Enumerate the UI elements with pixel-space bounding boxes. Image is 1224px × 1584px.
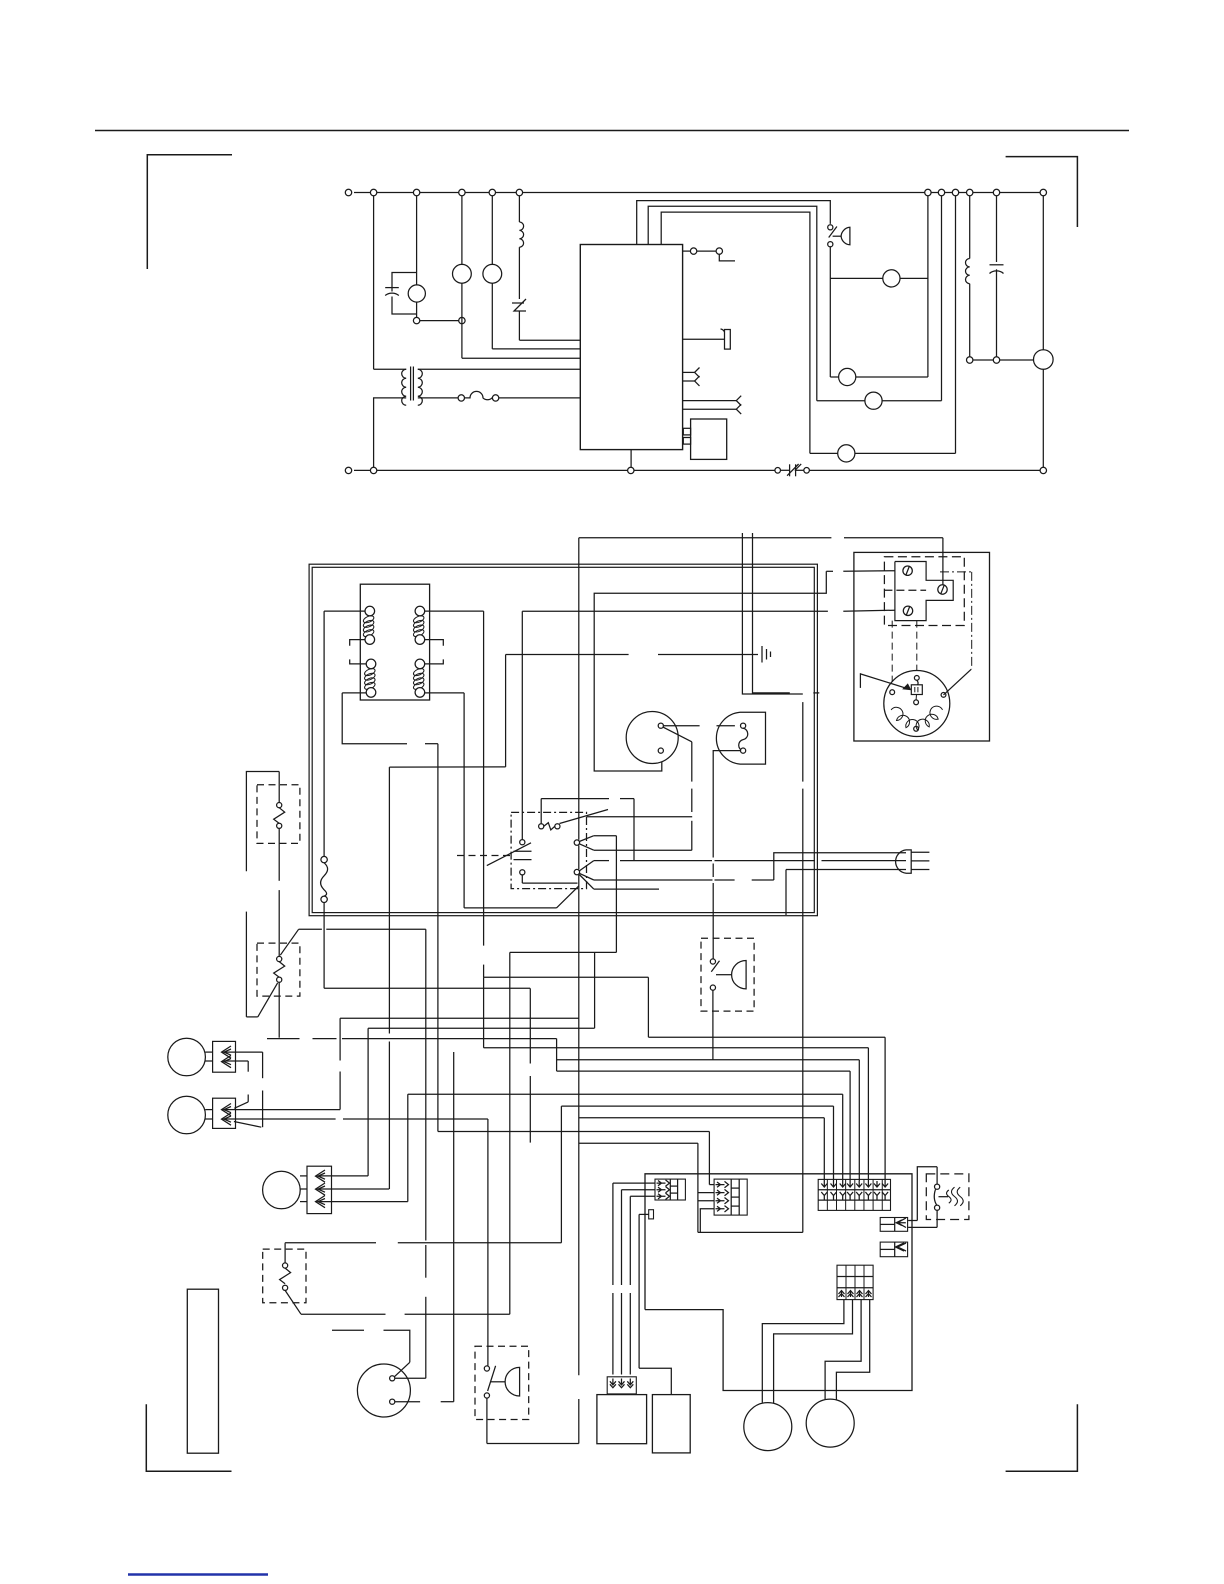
diagonal feed to TC2: [280, 929, 298, 955]
heater M4 circle: [838, 445, 855, 462]
terminal left end of bottom bus: [345, 467, 351, 473]
wire B row1 stub: [709, 1184, 714, 1186]
transformer T1 secondary winding: [418, 369, 423, 405]
switch S7 linkage diagonal: [487, 843, 531, 866]
wire A from line cord area: [753, 533, 790, 693]
bottom bus wire L2: [354, 469, 1043, 471]
wire y1232.4 to x802.8: [698, 1231, 803, 1233]
oven lamp H1 branch: [461, 196, 463, 265]
connector tab J2a: [683, 371, 695, 373]
wire y1131.5 to PCB B row1: [438, 1131, 710, 1133]
wire x487.9 down to S4: [487, 1119, 489, 1366]
wire y1047.8 to conn pin6: [484, 1047, 869, 1049]
wire S7 to main vertical: [522, 882, 577, 884]
connector tab J3b: [683, 408, 737, 410]
wire H1 y1242.7: [284, 1242, 286, 1245]
heater switch S5: [936, 1167, 938, 1184]
wire motor loop bottom y377: [830, 376, 838, 378]
wire bus drop x927.9: [927, 196, 929, 377]
wire lamp H2 to control unit: [492, 348, 580, 350]
wire CU1 relay out 3: [661, 212, 810, 453]
wire J5 branch loop: [633, 799, 635, 861]
turntable motor M7: [168, 1096, 206, 1134]
wire J5 fan diagonals: [579, 861, 594, 871]
dashed linkage stub: [457, 855, 510, 857]
wire timer a to bell: [663, 725, 699, 727]
wire x530.3 down: [529, 988, 531, 1063]
FM1 terminal right: [941, 693, 946, 698]
wire branch y1018.2 left: [340, 1017, 579, 1019]
wire x453.7 up: [453, 1052, 455, 1402]
wire y1028.2: [368, 1027, 594, 1029]
FM1 terminal center: [914, 700, 919, 705]
wire x483.6 drop from RY1b wire: [483, 611, 485, 946]
CN1 wire lower: [224, 1060, 248, 1062]
timer motor TM1 circle: [626, 712, 678, 764]
wire x483.6 down to pin6 row: [483, 977, 485, 1048]
wire ground branch down: [742, 654, 802, 694]
wire TM2a right to x425.8: [395, 1377, 426, 1379]
connector B arrows: [716, 1181, 729, 1187]
cord wire 3: [786, 869, 906, 871]
node top bus x519.4: [516, 189, 522, 195]
wire x594.6 up: [594, 952, 596, 1028]
wire x324.1 down to flex joint: [323, 611, 325, 856]
FM1 terminal top: [914, 676, 919, 681]
node top bus right end x1043.3: [1040, 189, 1046, 195]
fan motor M8: [263, 1171, 301, 1209]
CN2 wire upper to x339.2: [224, 1109, 236, 1111]
wire y816.8: [587, 816, 693, 818]
timer switch blade: [663, 727, 692, 742]
stirrer motor M6: [168, 1038, 206, 1076]
node top bus x927.9: [925, 189, 931, 195]
wire primary feed horizontal y369.3: [374, 368, 407, 370]
CN3 contact chevrons: [316, 1170, 326, 1182]
CN2 contact chevrons: [222, 1104, 232, 1116]
noise filter capacitor C1: [392, 273, 417, 285]
M8 stub wires: [300, 1175, 307, 1177]
inductor L4 branch: [969, 196, 971, 259]
crystal component on PCB edge: [649, 1210, 654, 1219]
thermal cutout TC2 blade: [258, 983, 278, 1017]
CN2 wire lower y1119: [224, 1118, 336, 1120]
switch S3 actuator: [732, 961, 747, 989]
wire S7 to fan terminal screw3: [522, 610, 828, 612]
wire H2 y1314.2: [301, 1313, 386, 1315]
wire y360 tie: [973, 359, 993, 361]
magnetron M5 circle: [1034, 350, 1054, 370]
interlock dashed enclosure: [511, 812, 586, 888]
junction circle J5: [574, 869, 579, 874]
CN3 row3 wire to x407.8: [319, 1201, 408, 1203]
wire CU1 relay out 1: [637, 201, 831, 245]
transformer T1 core: [410, 367, 412, 401]
wire x389.4 down from y767.1: [388, 767, 390, 1033]
wire CN11 pin3: [825, 1300, 861, 1401]
PCB connector A box: [655, 1179, 685, 1200]
switch S4 actuator: [505, 1367, 520, 1396]
wire crystal to x639.1: [639, 1213, 649, 1215]
node top bus x461.9: [459, 189, 465, 195]
dashed drop left: [891, 621, 893, 689]
wire varistor to control unit: [519, 339, 580, 341]
wire CN11 pin1 to magnetron M9: [762, 1300, 844, 1403]
bell striker: [741, 723, 746, 728]
PCB connector B box: [714, 1179, 747, 1215]
switch S4 contacts: [484, 1366, 489, 1371]
wire S4 bottom: [486, 1398, 488, 1443]
wire CU1 bottom to bus: [630, 450, 632, 468]
terminal left end of top bus: [345, 189, 351, 195]
lamp M3 circle: [865, 392, 882, 409]
linkage corner: [246, 1016, 257, 1018]
wire C row1 to x917.3: [908, 1220, 917, 1222]
wire y1094.2 to conn pin3: [408, 1093, 843, 1095]
TM2 terminal b: [390, 1399, 395, 1404]
CN1 contact chevrons: [222, 1046, 232, 1058]
corner bracket top-right: [1006, 157, 1078, 227]
wire x616.4 from J4 branch: [615, 836, 617, 953]
monitor switch S2: [828, 225, 833, 230]
wire x340.1 down to motor2 wire: [339, 1018, 341, 1060]
fan motor FM1 circle: [884, 671, 950, 737]
wire y889.1: [594, 888, 659, 890]
CN11 arrows: [839, 1291, 845, 1297]
wire x556.6 jog to pin4 row: [556, 1039, 558, 1072]
FM1 lead top-to-box: [917, 680, 918, 685]
thermal cutout TC1: [278, 772, 280, 803]
FM1 terminal left: [890, 690, 895, 695]
switch S7 wire from lamp line: [521, 611, 523, 839]
FM1 lead box-to-center: [915, 695, 917, 700]
wire y1059.8 to conn pin5: [557, 1059, 860, 1061]
HV connector arrows box: [607, 1377, 636, 1394]
wire x425.8 down to timer2: [425, 929, 427, 1240]
terminal bottom bus right end: [1040, 467, 1046, 473]
wire y1443.5 right: [487, 1443, 579, 1445]
choke coil L3 branch: [518, 196, 520, 222]
node top bus x955.5: [952, 189, 958, 195]
main vertical bus x578.8: [578, 538, 580, 840]
switch S6: [539, 824, 544, 829]
wire x437.9 down through border: [437, 744, 439, 1132]
connector tab J3a: [683, 400, 737, 402]
switch S6 blade: [560, 810, 609, 824]
ground wire y654.5: [506, 654, 629, 656]
wire branch PCB B row2 y1143.2: [579, 1142, 698, 1144]
wire x409.8 up and left: [384, 1330, 410, 1362]
node terminal x969.7 y360: [967, 357, 973, 363]
dashed drop center: [916, 621, 918, 675]
connector CN2 box: [213, 1098, 236, 1128]
relay coil RY1a: [365, 606, 375, 616]
node top bus x492.3: [489, 189, 495, 195]
screw terminal 1: [903, 566, 912, 575]
wire RY1d bottom to x464.1: [425, 692, 464, 694]
top bus wire L1: [354, 192, 1043, 194]
connector pins CU1-DU1: [683, 428, 690, 435]
wire J4 branch to x616.4: [594, 835, 617, 837]
node terminal x416.6 y320.6: [413, 317, 419, 323]
wire A row2 from x621.5: [622, 1189, 656, 1191]
FM1 center box: [911, 685, 922, 695]
bottom blue rule: [128, 1573, 268, 1575]
FM1 terminal bottom: [914, 726, 919, 731]
connector A arrows: [657, 1180, 670, 1186]
wire RY1c bottom to x342.2: [342, 692, 366, 694]
wire primary bottom return: [374, 398, 407, 467]
surge unit B1 circle: [416, 196, 418, 285]
wire CN11 pin4: [836, 1300, 869, 1402]
wire B drop x742.4: [741, 533, 743, 654]
connector tab J2b: [683, 380, 695, 382]
FM1 pointer arrow: [859, 673, 861, 688]
CN3 row1 wire to x368.1: [319, 1175, 368, 1177]
wire y1106.1 to conn pin2: [561, 1105, 833, 1107]
wire bell b to door switch: [713, 751, 740, 858]
browner motor M10 circle: [806, 1399, 854, 1447]
heater element symbol: [947, 1187, 964, 1206]
thermal cutout TC2: [277, 956, 282, 961]
wire y1037.2 to conn pin8: [648, 1036, 885, 1038]
PCB connector D: [880, 1242, 907, 1257]
door sense switch S3 dashed box: [701, 938, 754, 1011]
left linkage wire: [246, 772, 279, 872]
oven lamp assembly box (empty): [187, 1289, 218, 1453]
wire y850.2: [594, 849, 692, 851]
fan assembly box: [854, 552, 990, 741]
wire x639.1 down to HV cap: [638, 1214, 640, 1368]
wire y400.7 to lamp M3: [817, 400, 865, 402]
wire tie y320.6: [420, 320, 459, 322]
wire TC2 bottom y1038.6: [267, 1038, 300, 1040]
thermal cutout TC2 dashed box: [257, 943, 300, 996]
interlock switch S1 on bottom bus: [781, 462, 804, 479]
long wire x802.8: [802, 702, 804, 782]
terminal block outline: [895, 562, 953, 621]
TC3 diagonal down: [285, 1290, 301, 1314]
magnetron M9 circle: [744, 1403, 792, 1451]
FM1 diagonal to dash-dot: [944, 669, 972, 695]
wire x324.1 through border: [323, 903, 325, 989]
node top bus x416.6: [413, 189, 419, 195]
thermal cutout TC3: [284, 1244, 286, 1263]
wire y1109.6 motor2 upper: [236, 1109, 340, 1111]
buzzer BZ1: [683, 338, 725, 340]
wire x407.8 up: [407, 1094, 409, 1201]
main harness connector CN10: [818, 1179, 890, 1210]
wire y453.4 to heater M4: [810, 452, 838, 454]
wire y952.4: [510, 951, 617, 953]
node bottom bus x373.6: [370, 467, 376, 473]
TM2 diagonal to x409.8: [394, 1362, 410, 1377]
node top bus x373.6: [370, 189, 376, 195]
node top bus x969.7: [967, 189, 973, 195]
node terminal x461.9 y320.6: [459, 317, 465, 323]
wire x917.3 up: [917, 1167, 937, 1221]
switch S7: [520, 840, 525, 845]
relay coil RY1b: [415, 606, 425, 616]
fan dash-dot boundary right: [971, 572, 973, 669]
connector bracket left of RY1: [350, 640, 365, 646]
connector CN1 box: [213, 1041, 236, 1072]
relay contact blade: [464, 907, 556, 909]
wire lamp H1 to control unit: [462, 357, 580, 359]
switch S3 contacts: [710, 959, 715, 964]
CN3 row2 wire to x389.2: [319, 1188, 389, 1190]
transformer T1 primary winding: [402, 369, 407, 405]
wire y929.3 to x425.8: [299, 928, 322, 930]
power plug PG1: [896, 850, 912, 873]
relay unit RY1 box: [360, 584, 429, 700]
corner bracket top-left: [147, 155, 232, 269]
wire y766.9 left: [389, 766, 505, 768]
oven assembly boundary box (double border): [309, 564, 817, 916]
fan motor M2: [839, 368, 856, 385]
wire magnetron drop: [1042, 196, 1044, 350]
timer terminal a: [658, 723, 663, 728]
HV capacitor box: [652, 1395, 690, 1453]
connector bracket right of RY1: [425, 640, 444, 646]
page top rule: [95, 130, 1129, 132]
heater unit dashed box: [926, 1174, 969, 1220]
wire branch pin1 y1117.8: [579, 1117, 825, 1119]
wire secondary top to control unit: [418, 368, 581, 370]
M7 stub wires: [205, 1109, 212, 1111]
HV transformer box: [597, 1395, 647, 1444]
relay coil RY1d: [415, 659, 425, 669]
wire C row2 to heater switch: [908, 1226, 937, 1228]
wire A row3 from x630.3: [630, 1195, 655, 1197]
wire secondary bottom to fuse: [418, 397, 458, 399]
thermal cutout TC1 dashed box: [257, 785, 300, 844]
wire motor loop top y278.4: [830, 277, 883, 279]
door switch S4 dashed box: [475, 1346, 529, 1419]
connector CN3 box: [307, 1166, 332, 1213]
TM2 terminal a: [390, 1376, 395, 1381]
CN10 top row arrows: [821, 1181, 827, 1187]
turntable motor M1: [883, 270, 900, 287]
node bottom bus x631.1: [628, 467, 634, 473]
wire CN11 pin2: [774, 1300, 853, 1404]
wire y1071.1 to conn pin4: [557, 1070, 851, 1072]
wire fuse to control unit: [499, 397, 581, 399]
node terminal x996.5 y360: [993, 357, 999, 363]
FM1 winding crown: [891, 706, 942, 730]
wire RY1b top to x483.6: [425, 610, 484, 612]
wire B row3: [698, 1200, 714, 1202]
wire top y537.8 to fan screw2: [579, 537, 832, 539]
wire hot drop x373.6: [373, 196, 375, 370]
wire bus drop x941.5: [941, 196, 943, 401]
corner bracket bottom-right: [1006, 1404, 1078, 1471]
wire TM2b right to x453.7: [395, 1401, 420, 1403]
PCB connector C: [880, 1218, 907, 1232]
inner cavity wire to fan screw1: [594, 571, 826, 771]
diagonal into CN2 upper: [234, 1102, 248, 1108]
switch actuator plunger: [841, 227, 850, 245]
varistor Z1: [514, 299, 526, 311]
chassis ground symbol: [761, 646, 763, 663]
flexible link (squiggle): [321, 856, 327, 862]
CN10 second row chevrons: [821, 1192, 827, 1200]
wire x561.4 up: [560, 1106, 562, 1243]
wire CU1 relay out 2: [648, 206, 817, 401]
thermal cutout TC3 dashed box: [263, 1249, 306, 1303]
cord wire 1 y880: [594, 879, 713, 881]
jog wire to x648.4: [484, 976, 649, 978]
node top bus x941.5: [938, 189, 944, 195]
relay coil RY1c: [366, 659, 376, 669]
timer motor TM2 circle: [357, 1364, 410, 1417]
heater switch stub: [939, 1196, 949, 1198]
fan inner dashed divider: [884, 589, 926, 591]
switch S6 feed wire: [541, 798, 609, 800]
display unit DU1 box: [691, 419, 727, 459]
wire RY1a top to x324.1: [324, 610, 365, 612]
wire bus drop x955.5: [955, 196, 957, 454]
CN1 wire upper: [224, 1051, 263, 1053]
bell BL1 outline: [716, 712, 765, 764]
timer terminal b: [658, 748, 663, 753]
wire monitor switch down: [829, 247, 831, 377]
wire blade drop x691.8: [691, 742, 693, 782]
oven lamp H2 branch: [491, 196, 493, 265]
capacitor C2 branch: [996, 196, 998, 262]
power PCB outline: [645, 1174, 912, 1391]
fan assembly dashed boundary: [884, 557, 964, 626]
screw terminal 3: [903, 606, 912, 615]
node top bus x996.5: [993, 189, 999, 195]
wire S3 down: [712, 990, 714, 1060]
screw terminal 2: [938, 585, 947, 594]
PCB output connector CN11: [837, 1265, 873, 1299]
control unit CU1 box: [580, 245, 682, 450]
connector J1 on CU1 right edge: [683, 250, 691, 252]
M6 stub wires: [205, 1051, 212, 1053]
wire y988.3 to x530.1: [324, 987, 530, 989]
wire B row4: [700, 1209, 714, 1233]
wire J4 fan diagonals: [579, 836, 594, 842]
diagonal into CN2 lower: [234, 1122, 261, 1128]
wire x509.8 up: [509, 952, 511, 1314]
fuse F1: [458, 395, 464, 401]
cord wire 2 (earth): [594, 860, 609, 862]
junction circle J4: [574, 840, 579, 845]
wire x505.6 down: [505, 655, 507, 767]
wire A row1 from x612.9: [613, 1182, 655, 1184]
corner bracket bottom-left: [146, 1404, 231, 1471]
wire B row2: [698, 1192, 714, 1194]
